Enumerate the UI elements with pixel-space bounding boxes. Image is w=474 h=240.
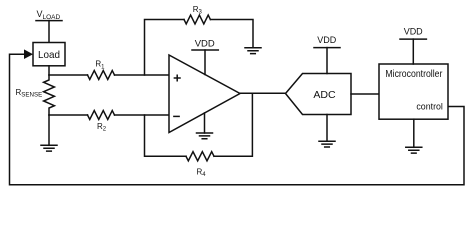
svg-text:RSENSE: RSENSE	[16, 88, 43, 99]
op-amp + input symbol	[174, 75, 180, 81]
load box	[33, 43, 65, 66]
wire V_LOAD bar to load	[48, 21, 50, 43]
svg-text:control: control	[416, 102, 443, 113]
wire feedback loop (control to load)	[10, 54, 465, 185]
microcontroller box	[379, 64, 448, 119]
op-amp U1	[169, 55, 240, 133]
ADC block	[286, 74, 352, 115]
op-amp ground stem	[204, 113, 206, 133]
op-amp VDD bar	[192, 49, 218, 51]
wire op-amp output to ADC	[240, 92, 286, 94]
svg-text:VDD: VDD	[317, 35, 336, 46]
svg-text:ADC: ADC	[313, 89, 336, 101]
op-amp - input symbol	[174, 115, 179, 117]
svg-text:R1: R1	[95, 60, 105, 71]
ground (below op-amp)	[197, 133, 213, 139]
ground (below microcontroller)	[406, 147, 422, 153]
ADC VDD stem	[326, 48, 328, 74]
op-amp VDD stem	[204, 50, 206, 75]
svg-text:Load: Load	[38, 49, 60, 61]
wire node to R1	[49, 74, 88, 76]
resistor R2	[88, 111, 115, 120]
wire node B down to R4	[145, 115, 187, 156]
svg-text:VLOAD: VLOAD	[37, 9, 61, 21]
wire R3 to ground	[210, 20, 253, 48]
microcontroller ground stem	[413, 119, 415, 147]
wire node to R2	[49, 114, 88, 116]
supply rail bar V_LOAD	[36, 20, 62, 22]
svg-text:R4: R4	[197, 168, 207, 179]
svg-text:VDD: VDD	[404, 27, 423, 38]
wire R_SENSE to ground	[48, 115, 50, 145]
wire R4 to output	[214, 93, 252, 156]
resistor R4	[186, 152, 214, 161]
svg-text:Microcontroller: Microcontroller	[385, 69, 443, 80]
ground (R3 right end)	[245, 48, 261, 54]
microcontroller VDD bar	[400, 38, 426, 40]
microcontroller VDD stem	[412, 39, 414, 64]
resistor R3	[184, 15, 210, 24]
wire load to sense node	[48, 66, 50, 75]
ADC ground stem	[326, 115, 328, 142]
ground (below ADC)	[319, 141, 335, 147]
wire ADC to microcontroller	[351, 93, 379, 95]
wire R1 to op-amp + input	[115, 74, 170, 76]
ADC VDD bar	[314, 47, 340, 49]
arrowhead into load	[24, 49, 33, 59]
resistor R1	[88, 71, 115, 80]
wire R2 to op-amp - input	[115, 114, 170, 116]
svg-text:VDD: VDD	[195, 38, 215, 49]
wire node A up to R3	[145, 20, 185, 76]
svg-text:R2: R2	[97, 122, 107, 133]
ground (below R_SENSE)	[41, 145, 57, 151]
svg-text:R3: R3	[193, 5, 203, 16]
resistor R_SENSE	[44, 75, 55, 115]
